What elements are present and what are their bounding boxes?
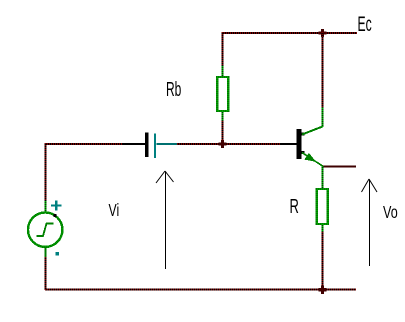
wire: top rail horizontal (Ec rail) — [222, 32, 357, 34]
wire: from Rb down to base-node junction — [222, 111, 224, 144]
source V1 anchor dot — [54, 214, 57, 217]
wire: bottom rail horizontal — [45, 289, 356, 291]
capacitor C1 right plate — [154, 134, 156, 159]
svg-text:R: R — [290, 195, 299, 218]
source V1 (AC source circle) — [28, 213, 62, 247]
wire: mid horizontal from left vertical to capacitor — [45, 143, 145, 145]
wire: left vertical lower (source down to bottom rail) — [45, 247, 47, 291]
junction: base node at Rb bottom — [219, 140, 227, 148]
arrow: Vi measurement arrow — [156, 171, 174, 269]
svg-text:Rb: Rb — [166, 79, 181, 101]
arrow: Vo measurement arrow — [362, 179, 378, 266]
wire: capacitor to base-node (teal then maroon then black into base) — [157, 143, 298, 145]
wire: emitter down to resistor R — [322, 166, 324, 189]
svg-text:Vo: Vo — [383, 203, 398, 223]
junction: emitter resistor node on bottom rail — [319, 286, 327, 295]
svg-text:Ec: Ec — [358, 11, 373, 35]
wire: left vertical upper (mid wire corner down to source) — [45, 143, 47, 213]
transistor Q1 base bar — [297, 129, 302, 159]
transistor Q1 emitter stub — [302, 151, 305, 154]
source V1 plus mark — [51, 201, 62, 211]
wire: resistor R down to bottom rail — [322, 224, 324, 290]
wire: top-left vertical from rail down to Rb — [222, 32, 224, 77]
resistor R — [317, 189, 328, 224]
wire: emitter output horizontal (to Vo terminal) — [323, 166, 357, 168]
source V1 minus mark — [56, 252, 60, 256]
transistor Q1 collector stub — [302, 133, 305, 136]
resistor Rb — [217, 77, 228, 111]
wire: collector vertical up to top rail — [322, 32, 324, 127]
source V1 waveform symbol — [37, 224, 54, 237]
capacitor C1 left plate — [145, 133, 149, 158]
transistor Q1 emitter lead with arrow — [302, 153, 323, 167]
junction: collector node on top rail — [319, 29, 327, 37]
svg-text:Vi: Vi — [109, 201, 120, 221]
transistor Q1 collector lead (green diagonal) — [302, 127, 323, 135]
